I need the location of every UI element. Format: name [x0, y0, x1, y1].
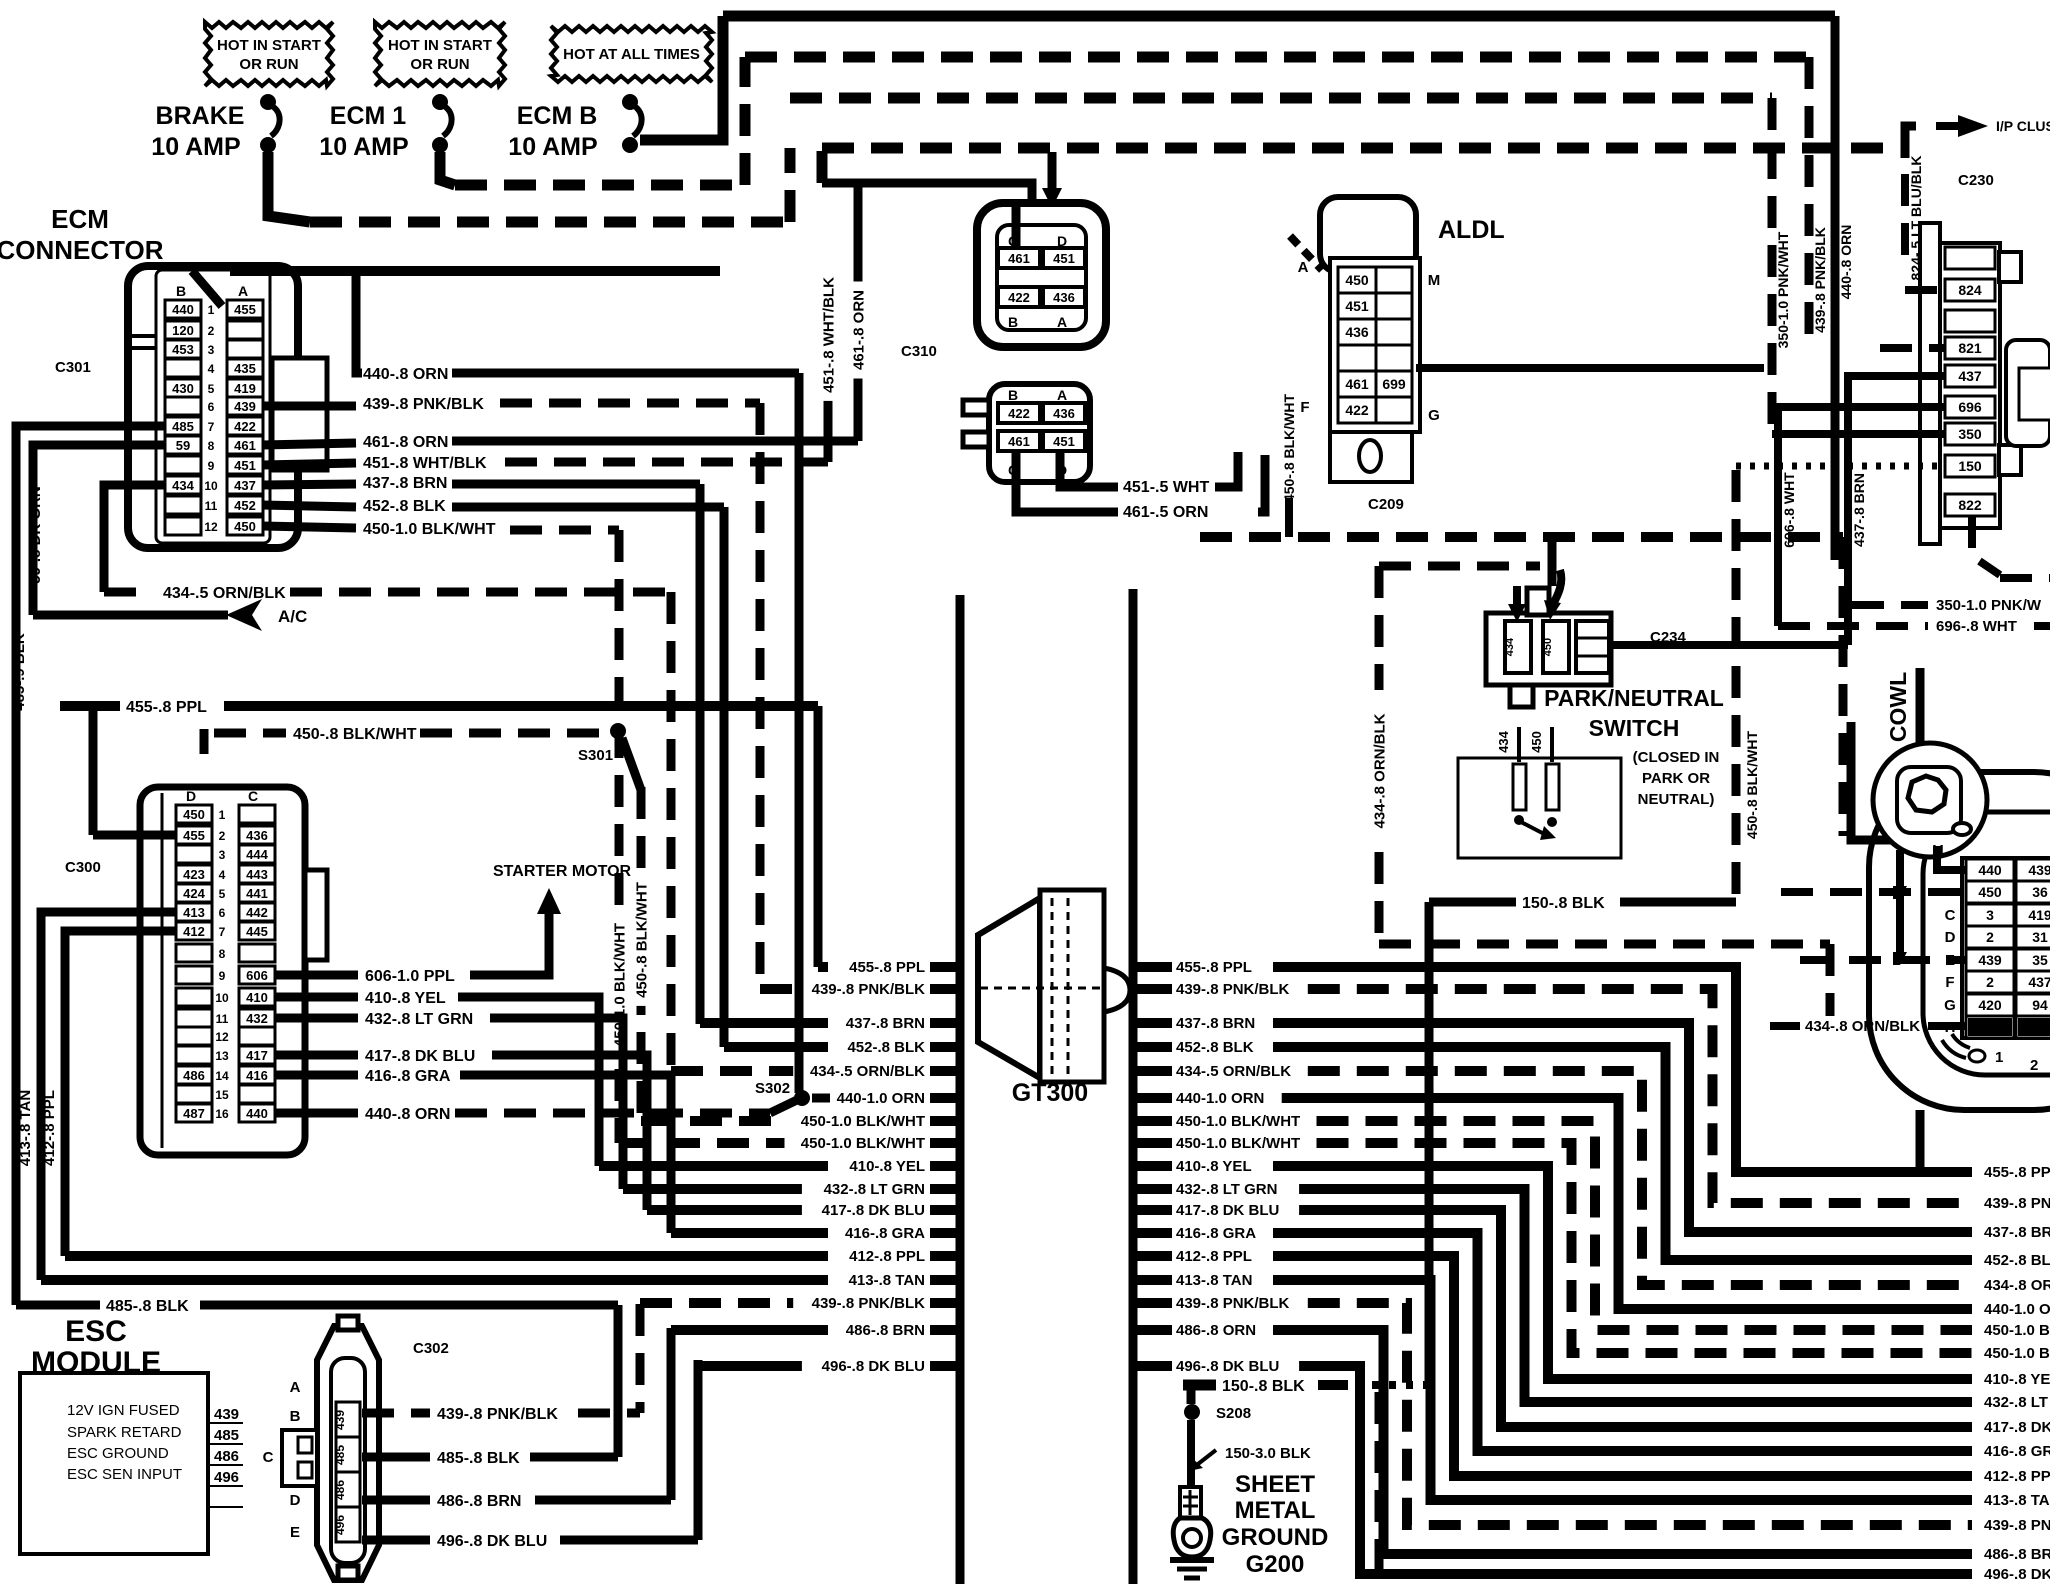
wire 440-.8 ORN (C301): [299, 271, 799, 383]
label 485-.9 BLK vertical: [11, 633, 28, 711]
svg-text:439-.8 PNK/: 439-.8 PNK/: [1984, 1195, 2050, 1212]
svg-text:59: 59: [176, 438, 190, 453]
wire 485-.8 BLK long row: [16, 1298, 618, 1315]
svg-text:G: G: [1428, 407, 1440, 424]
svg-text:455-.8 PPL: 455-.8 PPL: [1176, 959, 1252, 976]
svg-text:437-.8 BRN: 437-.8 BRN: [1176, 1015, 1255, 1032]
svg-text:M: M: [1428, 272, 1441, 289]
svg-text:A: A: [238, 283, 248, 299]
wire bus 148 (to I/P cluster): [822, 148, 1888, 183]
wire 824 stub: [1905, 286, 1945, 294]
svg-text:450: 450: [1529, 731, 1544, 753]
svg-text:5: 5: [208, 382, 215, 396]
wire 350 to C230: [1772, 430, 1945, 438]
svg-text:F: F: [1945, 974, 1954, 991]
svg-text:434-.5 ORN/BLK: 434-.5 ORN/BLK: [163, 585, 286, 602]
svg-text:455-.8 PPL: 455-.8 PPL: [126, 699, 207, 716]
label 439-.8 PNK/BLK vertical: [1812, 227, 1828, 333]
connector C234: [1486, 570, 1611, 707]
svg-text:485: 485: [214, 1427, 239, 1444]
svg-text:STARTER MOTOR: STARTER MOTOR: [493, 863, 632, 880]
svg-text:432-.8 LT GRN: 432-.8 LT GRN: [1176, 1181, 1277, 1198]
svg-text:461-.8 ORN: 461-.8 ORN: [850, 290, 867, 370]
svg-text:439-.8 PNK/BLK: 439-.8 PNK/BLK: [1176, 1295, 1290, 1312]
svg-text:824: 824: [1958, 282, 1982, 298]
svg-text:451-.5 WHT: 451-.5 WHT: [1123, 479, 1209, 496]
svg-text:C301: C301: [55, 359, 91, 376]
svg-text:450: 450: [183, 807, 205, 822]
wire 440 vertical: [795, 373, 804, 1093]
svg-text:434-.5 ORN/BLK: 434-.5 ORN/BLK: [1176, 1063, 1291, 1080]
svg-text:150: 150: [1958, 458, 1982, 474]
svg-text:486: 486: [333, 1480, 347, 1500]
svg-text:59-.8 DK GRN: 59-.8 DK GRN: [27, 486, 44, 584]
wire 461 vertical: [854, 183, 863, 441]
svg-text:416-.8 GRA: 416-.8 GRA: [365, 1068, 451, 1085]
svg-text:16: 16: [215, 1107, 229, 1121]
connector C310 upper half: [977, 203, 1106, 347]
svg-text:C: C: [248, 788, 258, 804]
svg-text:OR RUN: OR RUN: [239, 56, 298, 73]
svg-text:442: 442: [246, 905, 268, 920]
svg-text:HOT AT ALL TIMES: HOT AT ALL TIMES: [563, 46, 700, 63]
svg-text:417-.8 DK BLU: 417-.8 DK BLU: [1176, 1202, 1279, 1219]
svg-text:413-.8 TAN: 413-.8 TAN: [17, 1090, 34, 1166]
wire 437-.8 BRN GT300 right label: [1137, 1015, 1255, 1032]
label C310: [901, 343, 937, 360]
svg-text:C310: C310: [901, 343, 937, 360]
wire 439-.8 PNK/BLK GT300 left: [640, 1295, 958, 1312]
wire 496-.8 DK BLU GT300 left: [698, 1358, 958, 1375]
svg-text:450-1.0 BLK: 450-1.0 BLK: [1984, 1322, 2050, 1339]
wire 455 vertical: [814, 706, 823, 967]
svg-text:HOT IN START: HOT IN START: [388, 37, 492, 54]
svg-text:410-.8 YEL: 410-.8 YEL: [1984, 1371, 2050, 1388]
wire 496 riser: [694, 1360, 703, 1540]
svg-text:G200: G200: [1246, 1551, 1305, 1578]
wire 434-.5 ORN/BLK GT300 right label: [1137, 1063, 1291, 1080]
svg-text:5: 5: [219, 887, 226, 901]
wire 439-.8 PNK/ to right edge: [1308, 1303, 2050, 1534]
wire 450-.8 vertical: [637, 787, 646, 1120]
svg-text:350: 350: [1958, 426, 1982, 442]
svg-text:120: 120: [172, 323, 194, 338]
svg-text:440: 440: [172, 302, 194, 317]
wire 450-1.0 BLK/WHT GT300 left: [641, 1113, 958, 1130]
wire brake fuse drop: [268, 152, 790, 222]
wire 437 to C230: [1848, 376, 1945, 645]
svg-text:496-.8 DK BLU: 496-.8 DK BLU: [1176, 1358, 1279, 1375]
grommet GT300 symbol: [978, 890, 1130, 1082]
wire 413-.8 TAN GT300 right label: [1137, 1272, 1252, 1289]
wire 59 to left edge: [33, 445, 165, 615]
wire 412 to left: [65, 931, 176, 1256]
label 450-.8 BLK/WHT vertical (right): [1744, 730, 1760, 839]
wire brake bus riser: [785, 148, 796, 222]
svg-text:434: 434: [1504, 637, 1516, 656]
label 696-.8 WHT vertical: [1781, 472, 1797, 548]
svg-text:822: 822: [1958, 497, 1982, 513]
svg-text:6: 6: [208, 400, 215, 414]
junction S302: [755, 1080, 830, 1106]
wire 486-.8 BRN GT300 left: [671, 1322, 958, 1339]
wire 439 grid row: [1800, 956, 1966, 964]
svg-text:461: 461: [1345, 376, 1369, 392]
svg-text:419: 419: [234, 381, 256, 396]
svg-text:417-.8 DK BLU: 417-.8 DK BLU: [822, 1202, 925, 1219]
svg-text:437: 437: [234, 478, 256, 493]
label SHEET METAL GROUND G200: [1222, 1471, 1329, 1578]
svg-text:C230: C230: [1958, 172, 1994, 189]
svg-text:10 AMP: 10 AMP: [508, 133, 597, 161]
svg-text:9: 9: [219, 969, 226, 983]
svg-text:486-.8 BRN: 486-.8 BRN: [846, 1322, 925, 1339]
svg-text:2: 2: [2030, 1057, 2038, 1074]
svg-text:422: 422: [1008, 290, 1030, 305]
svg-text:12V IGN FUSED: 12V IGN FUSED: [67, 1402, 180, 1419]
svg-text:150-3.0 BLK: 150-3.0 BLK: [1225, 1445, 1311, 1462]
svg-text:455-.8 PPL: 455-.8 PPL: [849, 959, 925, 976]
wire 440-1.0 ORN GT300 left: [837, 1090, 958, 1107]
label 59-.8 DK GRN vertical: [27, 486, 44, 584]
svg-text:A: A: [1057, 387, 1067, 403]
wire 450-1.0 BLK/WHT GT300 right label: [1137, 1135, 1300, 1152]
wire 451 vertical: [824, 271, 833, 462]
label 413-.8 TAN vertical: [17, 1090, 34, 1166]
svg-text:GROUND: GROUND: [1222, 1524, 1329, 1551]
wire 417-.8 DK BLU: [275, 1048, 647, 1210]
wire 455-.8 PPL GT300 right label: [1137, 959, 1252, 976]
connector C310 lower half: [963, 384, 1090, 482]
wire 1843 vertical: [1843, 537, 1960, 840]
svg-text:METAL: METAL: [1235, 1497, 1316, 1524]
label 440-.8 ORN vertical: [1838, 225, 1854, 300]
label STARTER MOTOR: [493, 863, 632, 880]
wire 496-.8 DK BLU GT300 right label: [1137, 1358, 1279, 1375]
wire 440-.8 ORN (C300): [275, 1100, 797, 1123]
wire 450-1.0 vertical: [615, 530, 624, 1143]
svg-text:434-.8 ORN/BLK: 434-.8 ORN/BLK: [1805, 1018, 1920, 1035]
svg-text:452-.8 BLK: 452-.8 BLK: [1176, 1039, 1254, 1056]
svg-text:4: 4: [208, 362, 215, 376]
wire 439-.8 PNK/BLK GT300 left: [760, 981, 958, 998]
svg-text:461-.8 ORN: 461-.8 ORN: [363, 434, 448, 451]
svg-text:439: 439: [214, 1406, 239, 1423]
svg-text:436: 436: [246, 828, 268, 843]
label 350-1.0 PNK/WHT vertical: [1775, 231, 1791, 348]
wire C310 D feed arrow: [1042, 152, 1062, 208]
label 461-.8 ORN vertical: [849, 282, 867, 379]
svg-text:440-1.0 ORN: 440-1.0 ORN: [837, 1090, 925, 1107]
ground terminal G200: [1170, 1487, 1214, 1578]
svg-text:450-1.0 BLK/WHT: 450-1.0 BLK/WHT: [801, 1135, 925, 1152]
wire firewall right: [1129, 589, 1138, 1584]
svg-text:440: 440: [1978, 862, 2002, 878]
svg-text:150-.8 BLK: 150-.8 BLK: [1222, 1378, 1305, 1395]
svg-text:412: 412: [183, 924, 205, 939]
svg-text:450-.8 BLK/WHT: 450-.8 BLK/WHT: [293, 726, 417, 743]
svg-text:486-.8 BRN: 486-.8 BRN: [1984, 1546, 2050, 1563]
svg-text:C209: C209: [1368, 496, 1404, 513]
wire 485-.8 BLK (C302): [362, 1450, 618, 1467]
svg-text:452-.8 BLK: 452-.8 BLK: [847, 1039, 925, 1056]
label I/P CLUS: [1996, 118, 2050, 134]
label 450-.8 BLK/WHT vertical: [632, 874, 650, 1006]
wire 450-1.0 BLK/WHT (C301): [262, 521, 619, 538]
svg-text:A: A: [1057, 314, 1067, 330]
wire 150-3.0 BLK: [1189, 1420, 1311, 1487]
svg-text:434: 434: [172, 478, 194, 493]
svg-text:G: G: [1944, 997, 1956, 1014]
connector C230: [1920, 223, 2050, 544]
svg-text:36: 36: [2032, 884, 2048, 900]
wire 416-.8 GRA: [275, 1068, 671, 1233]
svg-text:ECM B: ECM B: [517, 102, 598, 130]
svg-text:C234: C234: [1650, 629, 1687, 646]
svg-text:4: 4: [219, 868, 226, 882]
svg-text:413-.8 TAN: 413-.8 TAN: [849, 1272, 925, 1289]
label ECM CONNECTOR: [0, 204, 164, 265]
svg-text:437: 437: [1958, 368, 1982, 384]
svg-text:11: 11: [205, 499, 218, 513]
wire 450-1.0 BLK to right edge: [1317, 1143, 2050, 1362]
svg-text:451: 451: [1345, 298, 1369, 314]
svg-text:439-.8 PNK/BLK: 439-.8 PNK/BLK: [1176, 981, 1290, 998]
svg-text:450-.8 BLK/WHT: 450-.8 BLK/WHT: [1744, 730, 1760, 839]
svg-text:439: 439: [234, 399, 256, 414]
wire 486-.8 BRN (C302): [362, 1493, 671, 1510]
label C302: [413, 1340, 449, 1357]
svg-text:F: F: [1300, 399, 1309, 416]
svg-text:455-.8 PPL: 455-.8 PPL: [1984, 1164, 2050, 1181]
svg-text:451-.8 WHT/BLK: 451-.8 WHT/BLK: [820, 277, 837, 393]
svg-text:432-.8 LT GRN: 432-.8 LT GRN: [824, 1181, 925, 1198]
wire 485 to left edge: [16, 426, 165, 1305]
wire 437-.8 BRN (C301): [262, 475, 700, 492]
wire ALDL A stub: [1290, 236, 1322, 270]
svg-text:PARK OR: PARK OR: [1642, 770, 1710, 787]
wire 417-.8 DK BLU GT300 right label: [1137, 1202, 1279, 1219]
svg-text:8: 8: [219, 947, 226, 961]
svg-text:440-1.0 ORN: 440-1.0 ORN: [1984, 1301, 2050, 1318]
svg-text:461: 461: [1008, 434, 1030, 449]
svg-text:CONNECTOR: CONNECTOR: [0, 235, 164, 265]
wire 432-.8 LT GRN GT300 left: [623, 1181, 958, 1198]
wire 350-1.0 PNK/WHT vertical: [1768, 98, 1777, 434]
svg-text:413-.8 TAN: 413-.8 TAN: [1176, 1272, 1252, 1289]
wire 416-.8 GRA GT300 left: [671, 1225, 958, 1242]
svg-text:451-.8 WHT/BLK: 451-.8 WHT/BLK: [363, 455, 487, 472]
wire 150-.8 BLK row: [1429, 895, 1736, 912]
svg-text:12: 12: [204, 520, 218, 534]
svg-text:D: D: [186, 788, 196, 804]
connector C302: [263, 1316, 379, 1580]
wire 413 to left: [41, 912, 176, 1280]
svg-text:15: 15: [215, 1088, 229, 1102]
svg-text:461-.5 ORN: 461-.5 ORN: [1123, 504, 1208, 521]
svg-text:416: 416: [246, 1068, 268, 1083]
wire 412-.8 PPL to right edge: [1273, 1256, 2050, 1485]
svg-text:443: 443: [246, 867, 268, 882]
wire 150 vertical drop: [1425, 902, 1434, 1345]
svg-text:696: 696: [1958, 399, 1982, 415]
svg-text:S302: S302: [755, 1080, 790, 1097]
label pins 1 2: [1995, 1049, 2038, 1074]
svg-text:94: 94: [2032, 997, 2048, 1013]
wire ECM1 bus riser: [740, 57, 751, 185]
svg-text:437: 437: [2028, 974, 2050, 990]
wire 439 riser (C302): [636, 1304, 645, 1413]
svg-text:439-.8 PNK/BLK: 439-.8 PNK/BLK: [363, 396, 484, 413]
wire 437-.8 BRN GT300 left: [700, 1015, 958, 1032]
svg-text:2: 2: [1986, 929, 1994, 945]
svg-text:10: 10: [204, 479, 218, 493]
svg-text:1: 1: [208, 303, 215, 317]
svg-text:440-.8 ORN: 440-.8 ORN: [363, 366, 448, 383]
wire 455-.8 PPL to right edge: [1273, 967, 2050, 1181]
svg-text:422: 422: [1345, 402, 1369, 418]
connector C300: [140, 787, 327, 1155]
wire 452-.8 BLK (C301): [262, 498, 724, 515]
wire 439-.8 PNK/BLK vertical: [1805, 57, 1814, 348]
svg-text:3: 3: [1986, 907, 1994, 923]
svg-text:412-.8 PPL: 412-.8 PPL: [1984, 1468, 2050, 1485]
svg-text:486: 486: [183, 1068, 205, 1083]
wire 410-.8 YEL: [275, 990, 599, 1166]
wire 410-.8 YEL to right edge: [1273, 1166, 2050, 1388]
svg-text:10 AMP: 10 AMP: [319, 133, 408, 161]
svg-text:450-1.0 BLK/WHT: 450-1.0 BLK/WHT: [363, 521, 496, 538]
park/neutral switch symbol: [1458, 727, 1621, 858]
svg-text:11: 11: [216, 1012, 229, 1026]
svg-text:496-.8 DK BLU: 496-.8 DK BLU: [822, 1358, 925, 1375]
wire 432-.8 LT GRN GT300 right label: [1137, 1181, 1277, 1198]
svg-text:606: 606: [246, 968, 268, 983]
label 434-.8 ORN/BLK vertical: [1370, 705, 1388, 837]
svg-text:2: 2: [1986, 974, 1994, 990]
svg-text:437-.8 BRN: 437-.8 BRN: [846, 1015, 925, 1032]
svg-text:10 AMP: 10 AMP: [151, 133, 240, 161]
wire S208 riser: [1187, 1389, 1196, 1404]
wire 455-.8 PPL row: [60, 699, 818, 716]
wire 150 vertical end: [1425, 1340, 1434, 1385]
wire 450-1.0 BLK/WHT GT300 left: [619, 1135, 958, 1152]
wire 696 to C230: [1778, 407, 1945, 626]
svg-text:31: 31: [2032, 929, 2048, 945]
svg-text:417: 417: [246, 1048, 268, 1063]
svg-text:410-.8 YEL: 410-.8 YEL: [365, 990, 446, 1007]
svg-text:434-.8 ORN/BLK: 434-.8 ORN/BLK: [1371, 713, 1388, 828]
svg-text:ESC SEN INPUT: ESC SEN INPUT: [67, 1466, 182, 1483]
wire grid vertical: [1893, 850, 1907, 965]
wire 824 riser to I/P: [1905, 115, 1988, 255]
wire ALDL 450 drop: [1285, 498, 1293, 537]
wire bus 98 (350 pnk/wht): [790, 93, 1772, 104]
svg-text:455: 455: [183, 828, 205, 843]
svg-text:D: D: [290, 1492, 301, 1509]
wire 410-.8 YEL GT300 left: [599, 1158, 958, 1175]
wire bus 16 solid (440 orn): [723, 11, 1835, 22]
power flag HOT AT ALL TIMES (ECMB fuse): [551, 26, 712, 82]
connector cowl grid (C100): [1944, 858, 2050, 1038]
svg-text:350-1.0 PNK/WHT: 350-1.0 PNK/WHT: [1775, 231, 1791, 348]
wire 455 drop to C300: [89, 706, 98, 835]
svg-text:441: 441: [246, 886, 268, 901]
svg-text:SHEET: SHEET: [1235, 1471, 1315, 1498]
wire 452 vertical: [720, 507, 729, 1047]
svg-text:450: 450: [1978, 884, 2002, 900]
svg-text:486-.8 ORN: 486-.8 ORN: [1176, 1322, 1256, 1339]
svg-text:OR RUN: OR RUN: [410, 56, 469, 73]
svg-text:434: 434: [1496, 730, 1511, 752]
svg-text:412-.8 PPL: 412-.8 PPL: [1176, 1248, 1252, 1265]
svg-text:440-1.0 ORN: 440-1.0 ORN: [1176, 1090, 1264, 1107]
svg-text:434-.8 ORN/: 434-.8 ORN/: [1984, 1277, 2050, 1294]
svg-text:440-.8 ORN: 440-.8 ORN: [365, 1106, 450, 1123]
power flag HOT IN START OR RUN (ECM1 fuse): [375, 22, 505, 86]
wire 486-.8 ORN GT300 right label: [1137, 1322, 1256, 1339]
wire 450 grid row: [1781, 888, 1966, 896]
svg-text:419: 419: [2028, 907, 2050, 923]
svg-text:486: 486: [214, 1448, 239, 1465]
connector ALDL: [1298, 197, 1441, 482]
wire 417-.8 DK BLU GT300 left: [647, 1202, 958, 1219]
svg-text:7: 7: [219, 925, 226, 939]
wire ECMB fuse drop: [640, 16, 723, 140]
wire 439 vertical: [756, 403, 765, 989]
wire 486-.8 BRN to right edge: [1273, 1330, 2050, 1563]
wire 434-.5 ORN/BLK row: [104, 585, 673, 602]
cowl grommet horseshoe: [1869, 772, 2050, 1110]
svg-text:450-1.0 BLK/WHT: 450-1.0 BLK/WHT: [801, 1113, 925, 1130]
svg-text:445: 445: [246, 924, 268, 939]
label 412-.8 PPL vertical: [41, 1090, 58, 1166]
svg-text:485-.8 BLK: 485-.8 BLK: [106, 1298, 189, 1315]
svg-text:496-.8 DK B: 496-.8 DK B: [1984, 1566, 2050, 1583]
svg-text:437-.8 BRN: 437-.8 BRN: [1984, 1224, 2050, 1241]
svg-text:9: 9: [208, 459, 215, 473]
label 450-.8 BLK/WHT vertical (ALDL): [1281, 393, 1297, 502]
svg-text:435: 435: [234, 361, 256, 376]
label C234: [1650, 629, 1687, 646]
svg-text:3: 3: [208, 343, 215, 357]
svg-text:430: 430: [172, 381, 194, 396]
wire 150-.8 BLK (ground): [1183, 1378, 1429, 1395]
svg-text:ECM: ECM: [51, 204, 109, 234]
svg-text:439-.8 PNK/BLK: 439-.8 PNK/BLK: [812, 981, 926, 998]
svg-text:2: 2: [219, 829, 226, 843]
svg-text:410-.8 YEL: 410-.8 YEL: [849, 1158, 925, 1175]
svg-text:450-1.0 BLK: 450-1.0 BLK: [1984, 1345, 2050, 1362]
wire 452-.8 BLK GT300 left: [724, 1039, 958, 1056]
svg-text:B: B: [290, 1408, 301, 1425]
wire 455-.8 PPL GT300 left: [818, 959, 958, 976]
wire 150 dotted: [1736, 463, 1945, 470]
wire 416-.8 GRA to right edge: [1273, 1233, 2050, 1460]
wire 461-.8 ORN (C301): [262, 434, 858, 451]
svg-text:417-.8 DK BLU: 417-.8 DK BLU: [365, 1048, 475, 1065]
label 451-.8 WHT/BLK vertical: [819, 269, 837, 401]
svg-text:485: 485: [172, 419, 194, 434]
svg-text:450: 450: [1542, 638, 1554, 656]
wire 439-.8 PNK/BLK GT300 right label: [1137, 1295, 1290, 1312]
svg-text:451: 451: [1053, 251, 1075, 266]
svg-text:432-.8 LT GR: 432-.8 LT GR: [1984, 1394, 2050, 1411]
svg-text:3: 3: [219, 848, 226, 862]
svg-text:C: C: [1945, 907, 1956, 924]
svg-text:496-.8 DK BLU: 496-.8 DK BLU: [437, 1533, 547, 1550]
svg-text:450-1.0 BLK/WHT: 450-1.0 BLK/WHT: [1176, 1135, 1300, 1152]
